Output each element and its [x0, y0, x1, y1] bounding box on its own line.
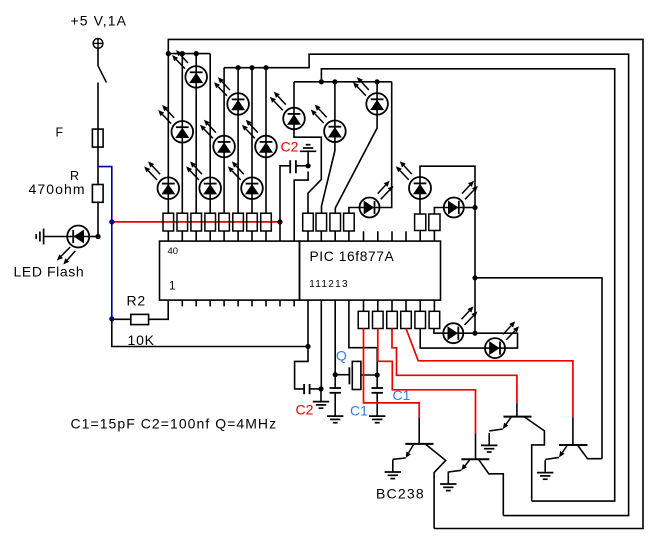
- resistor array left R2 (LED column 2): [177, 213, 188, 241]
- wire bus A row: [168, 53, 210, 55]
- wire supply to switch: [97, 48, 99, 66]
- wire tee down to LED3 node: [474, 278, 476, 333]
- wire resistor R16 to LED3 anode: [434, 329, 443, 334]
- VDD pin column (pin 9) to decoupling node: [280, 166, 290, 241]
- svg-text:C2: C2: [281, 138, 299, 154]
- wire crystal to OSC2 node: [361, 374, 377, 376]
- red +5V rail to PIC: [112, 221, 280, 223]
- LED Flash D1: [57, 226, 89, 265]
- node mid rail drop: [319, 79, 324, 84]
- wire T1 base: [418, 418, 420, 444]
- resistor bottom R18: [401, 300, 412, 328]
- LED V (D13): [396, 161, 431, 199]
- PIC 16f877A right box: [300, 241, 441, 300]
- LED D5 (matrix column 5): [200, 120, 235, 158]
- wire PIC pin to 10K node and C2: [295, 300, 308, 389]
- LED3 (D15, sideways): [443, 306, 477, 343]
- node right group top: [472, 205, 477, 210]
- switch S1 blade: [98, 67, 106, 83]
- wire LED A anode to resistor R9: [294, 129, 321, 213]
- transistor Q3 (BC238 NPN): [489, 417, 544, 502]
- wire MCLR node to PIC (10K net): [112, 319, 308, 346]
- resistor bottom R17: [387, 300, 398, 328]
- PIC right box top pin stub 5: [363, 231, 365, 241]
- svg-text:10K: 10K: [128, 332, 155, 348]
- capacitor C2 (bottom): [304, 384, 310, 394]
- red wire RB8 resistor to T4 base: [406, 329, 573, 418]
- red wire RB6 resistor to T2 base: [378, 329, 476, 434]
- LED D2 (matrix column 2): [158, 105, 193, 143]
- node col1 top: [166, 51, 171, 56]
- wire mid rail: [294, 81, 392, 83]
- wire LED column 1: [167, 54, 169, 214]
- wire LED column 3: [195, 54, 197, 214]
- svg-text:470ohm: 470ohm: [29, 181, 86, 197]
- resistor array left R6 (LED column 6): [233, 213, 244, 241]
- svg-text:40: 40: [168, 246, 179, 257]
- node LED B column: [332, 79, 337, 84]
- resistor array left R5 (LED column 5): [219, 213, 230, 241]
- wire LED B anode to resistor R10: [322, 142, 335, 213]
- capacitor C1 right: [372, 375, 384, 393]
- wire LED2 anode to resistor R14: [434, 208, 443, 215]
- capacitor C2 (100nF decoupling): [290, 160, 308, 173]
- node LED E column: [375, 79, 380, 84]
- wire OSC1 node to crystal plate: [335, 374, 349, 376]
- wire LED column 6: [237, 68, 239, 214]
- wire LED column 2: [181, 54, 183, 214]
- VSS pin column (pin 10) to C2 ground node: [294, 172, 308, 242]
- resistor R2 10K: [131, 314, 149, 324]
- LED4 (D16, sideways): [485, 321, 519, 358]
- node col8 top: [263, 65, 268, 70]
- ground (emitter Q1): [385, 460, 401, 479]
- transistor Q1 (BC238 NPN): [393, 444, 446, 529]
- wire bus B (columns 5-8 to T2 collector): [224, 54, 628, 515]
- PIC left box bottom pin stub 9: [279, 300, 281, 306]
- PIC left box bottom pin stub 8: [265, 300, 267, 306]
- PIC left box bottom pin stub 6: [237, 300, 239, 306]
- node col6 top: [236, 65, 241, 70]
- resistor array left R3 (LED column 3): [191, 213, 202, 241]
- transistor Q2 (BC238 NPN): [448, 459, 503, 515]
- wire LED E anode to resistor R11: [335, 115, 377, 214]
- svg-text:BC238: BC238: [376, 486, 425, 502]
- node col2 top: [180, 51, 185, 56]
- LED D3 (matrix column 3): [172, 50, 207, 88]
- node OSC1: [333, 372, 338, 377]
- wire LED column 8: [265, 68, 267, 214]
- wire LED A column: [293, 82, 295, 108]
- PIC right box top pin stub 7: [391, 231, 393, 241]
- resistor right-group R13: [415, 214, 426, 241]
- svg-text:C1=15pF C2=100nf Q=4MHz: C1=15pF C2=100nf Q=4MHz: [71, 416, 278, 432]
- LED A (D9): [270, 92, 305, 130]
- wire T2 base: [475, 434, 477, 460]
- transistor Q4 (BC238 NPN): [545, 445, 602, 460]
- node col7 top: [249, 65, 254, 70]
- wire R2 to PIC pin 1: [149, 300, 169, 319]
- wire node to R2: [112, 318, 131, 320]
- wire mid rail to LED1 cathode: [380, 82, 392, 208]
- wire right group vertical to T4 tee: [474, 208, 476, 278]
- node 10K at PIC pin: [305, 344, 310, 349]
- wire PIC pin to C2 ground node: [320, 300, 322, 389]
- svg-text:F: F: [56, 125, 64, 139]
- LED D1 (matrix column 1): [144, 161, 179, 199]
- wire LED column 4: [209, 54, 211, 214]
- svg-text:C2: C2: [296, 402, 314, 418]
- resistor bottom R20: [429, 300, 440, 328]
- wire bus C (mid rail to T3 collector): [321, 69, 614, 501]
- resistor mid R12: [344, 213, 355, 241]
- resistor mid R11: [330, 213, 341, 241]
- ground (emitter Q4): [537, 460, 553, 479]
- node LED3 cathode: [472, 331, 477, 336]
- svg-text:1: 1: [169, 281, 175, 293]
- wire vertical LED top loop: [420, 166, 475, 207]
- supply terminal +: [93, 39, 103, 49]
- resistor bottom R16: [373, 300, 384, 328]
- LED E (D11): [353, 77, 388, 115]
- wire LED2 cathode to node: [464, 207, 475, 209]
- blue wire fuse node to R2 column: [98, 167, 112, 319]
- resistor array left R8 (LED column 8): [261, 213, 272, 241]
- capacitor C1 left: [330, 375, 342, 393]
- node rail left (blue): [109, 219, 114, 224]
- wire resistor R15 to LED4 anode: [420, 329, 485, 349]
- wire T4 base: [572, 417, 574, 445]
- PIC left box bottom pin stub 3: [195, 300, 197, 306]
- wire PIC OSC2 pin jog to crystal: [349, 300, 377, 375]
- LED D8 (matrix column 8): [242, 120, 277, 158]
- wire LED3 cathode to node: [463, 332, 475, 334]
- LED1 (D12, sideways): [360, 181, 394, 218]
- svg-text:PIC 16f877A: PIC 16f877A: [310, 249, 395, 264]
- node rail right at VDD pin: [277, 219, 282, 224]
- LED D7 (matrix column 7): [228, 161, 263, 199]
- resistor mid R10: [316, 213, 327, 241]
- wire fuse to resistor R: [97, 147, 99, 184]
- wire C2 to ground node: [310, 388, 321, 390]
- ground (C1 left): [327, 393, 343, 423]
- node R2 junction: [109, 316, 114, 321]
- node C2 ground: [318, 386, 323, 391]
- PIC left box bottom pin stub 10: [293, 300, 295, 306]
- LED B (D10): [311, 105, 346, 143]
- wire bus A top (columns 1-4 to T1 collector): [168, 39, 643, 528]
- LED D4 (matrix column 4): [186, 161, 221, 199]
- red wire RB7 resistor to T3 base: [392, 329, 517, 404]
- node T4 collector tee: [472, 275, 477, 280]
- PIC left box bottom pin stub 5: [223, 300, 225, 306]
- wire R to LED Flash node: [97, 202, 99, 236]
- wire LED Flash to node: [89, 236, 98, 238]
- crystal Q 4MHz: [349, 361, 361, 389]
- wire resistor R12 to LED1: [349, 208, 360, 214]
- resistor mid R9: [303, 213, 314, 241]
- ground (LED Flash, rotated): [36, 229, 43, 245]
- wire PIC OSC1 pin to crystal: [334, 300, 336, 375]
- node C2/ground junction: [306, 163, 311, 168]
- ground (C1 right): [369, 393, 385, 423]
- wire T3 base: [516, 403, 518, 416]
- node junction at LED Flash: [95, 234, 100, 239]
- svg-text:R2: R2: [127, 293, 147, 309]
- red wire RB5 resistor to T1 base: [364, 329, 420, 418]
- resistor bottom R15: [358, 300, 369, 328]
- svg-text:+5 V,1A: +5 V,1A: [71, 13, 128, 29]
- wire LED V anode to resistor R13: [419, 199, 421, 214]
- PIC 16f877A left box: [160, 241, 300, 300]
- resistor R 470ohm: [92, 185, 103, 203]
- PIC left box bottom pin stub 2: [181, 300, 183, 306]
- resistor bottom R19: [415, 300, 426, 328]
- node OSC2: [375, 372, 380, 377]
- wire T4 collector net: [475, 278, 602, 459]
- svg-text:111213: 111213: [309, 279, 349, 290]
- resistor array left R7 (LED column 7): [247, 213, 258, 241]
- resistor right-group R14: [429, 214, 440, 241]
- wire LED B column: [334, 82, 336, 121]
- svg-text:C1: C1: [350, 403, 368, 419]
- ground (emitter Q2): [440, 472, 456, 491]
- PIC right box top pin stub 8: [405, 231, 407, 241]
- LED2 (D14, sideways): [444, 181, 478, 218]
- wire LED column 5: [223, 68, 225, 214]
- LED D6 (matrix column 6): [214, 77, 249, 115]
- svg-text:LED Flash: LED Flash: [14, 264, 85, 280]
- PIC right box top pin stub 6: [377, 231, 379, 241]
- wire LED E column: [376, 82, 378, 93]
- fuse F: [92, 129, 103, 147]
- PIC left box bottom pin stub 7: [251, 300, 253, 306]
- ground (C2 bottom): [313, 389, 329, 408]
- ground (top C2, pointing up): [300, 145, 316, 166]
- svg-text:Q: Q: [336, 348, 347, 364]
- ground (emitter Q3): [481, 433, 497, 452]
- wire switch to fuse: [97, 83, 99, 130]
- resistor array left R4 (LED column 4): [205, 213, 216, 241]
- wire ground to LED Flash: [44, 236, 68, 238]
- wire LED column 7: [251, 68, 253, 214]
- wire node to LED4 cathode: [475, 333, 518, 348]
- PIC left box bottom pin stub 4: [209, 300, 211, 306]
- resistor array left R1 (LED column 1): [163, 213, 174, 241]
- node col3 top: [194, 51, 199, 56]
